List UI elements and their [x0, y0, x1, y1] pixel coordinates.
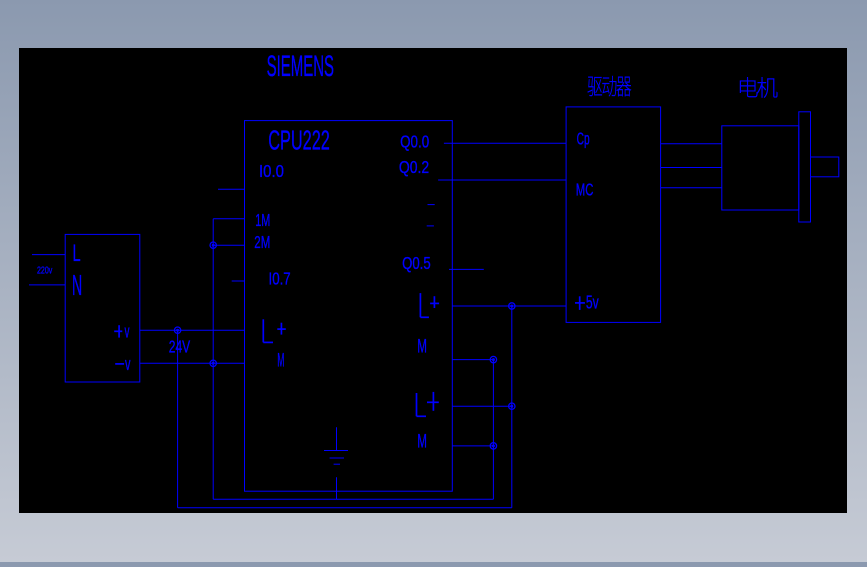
svg-text:Q0.0: Q0.0 [400, 131, 429, 151]
svg-text:SIEMENS: SIEMENS [267, 50, 334, 83]
svg-text:Cp: Cp [577, 128, 590, 148]
svg-text:v: v [125, 320, 130, 341]
svg-text:1M: 1M [255, 210, 270, 230]
svg-text:220v: 220v [37, 266, 52, 277]
svg-text:M: M [277, 351, 284, 372]
svg-text:Q0.5: Q0.5 [402, 253, 431, 273]
svg-text:M: M [417, 431, 427, 452]
svg-text:v: v [125, 353, 131, 374]
svg-text:24V: 24V [169, 336, 191, 356]
svg-text:N: N [72, 270, 82, 302]
svg-text:CPU222: CPU222 [268, 123, 330, 155]
svg-text:MC: MC [576, 179, 594, 199]
svg-text:Q0.2: Q0.2 [399, 157, 429, 177]
svg-text:I0.7: I0.7 [269, 269, 291, 289]
svg-text:2M: 2M [254, 232, 270, 252]
svg-text:L: L [73, 240, 81, 267]
svg-text:5v: 5v [586, 292, 599, 312]
svg-text:I0.0: I0.0 [259, 161, 284, 181]
svg-text:M: M [417, 337, 427, 358]
